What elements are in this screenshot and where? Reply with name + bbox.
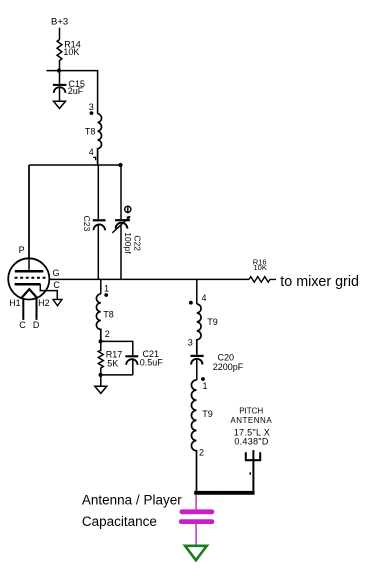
svg-text:to mixer grid: to mixer grid [280,274,359,290]
svg-text:H2: H2 [38,298,50,308]
svg-text:10K: 10K [63,47,79,57]
svg-text:P: P [19,245,25,255]
svg-text:T9: T9 [207,317,218,327]
svg-text:C23: C23 [82,216,92,232]
svg-text:0.5uF: 0.5uF [140,358,164,368]
svg-text:D: D [33,320,40,330]
svg-text:2: 2 [199,447,204,457]
svg-text:2uF: 2uF [68,86,84,96]
svg-text:Capacitance: Capacitance [82,514,157,529]
svg-text:C: C [53,280,60,290]
svg-text:2200pF: 2200pF [213,362,244,372]
svg-text:100pf: 100pf [123,232,133,254]
svg-text:1: 1 [203,381,208,391]
svg-text:H1: H1 [9,298,21,308]
svg-text:B+3: B+3 [51,17,68,28]
svg-text:PITCH: PITCH [239,407,263,416]
svg-text:10K: 10K [254,263,267,272]
svg-text:0.438"D: 0.438"D [234,436,269,446]
svg-text:3: 3 [188,337,193,347]
svg-text:G: G [53,268,60,278]
svg-text:T8: T8 [85,127,96,137]
svg-text:C: C [19,320,26,330]
svg-text:4: 4 [202,293,207,303]
svg-text:T8: T8 [103,310,114,320]
svg-text:T9: T9 [202,409,213,419]
svg-text:2: 2 [105,329,110,339]
svg-text:5K: 5K [107,358,118,368]
svg-text:1: 1 [104,284,109,294]
svg-text:4: 4 [89,147,94,157]
svg-text:3: 3 [89,102,94,112]
svg-text:ANTENNA: ANTENNA [230,416,272,425]
svg-text:Antenna / Player: Antenna / Player [82,492,182,507]
